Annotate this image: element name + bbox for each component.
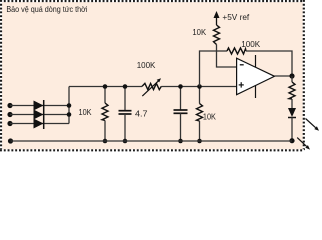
node: R1 bottom junction <box>103 139 108 144</box>
selection dashed border bottom <box>0 149 304 151</box>
diode D2 <box>34 110 44 120</box>
svg-text:10K: 10K <box>203 112 217 121</box>
LED emission arrow 2 <box>297 138 306 147</box>
node: C1 top junction <box>123 84 128 89</box>
node: C2 bottom junction <box>178 139 183 144</box>
svg-text:100K: 100K <box>241 40 261 49</box>
node: LED bottom junction <box>289 138 294 143</box>
wire: phase 3 line <box>10 123 69 125</box>
LED D4 <box>288 108 296 117</box>
wire: riser from diodes to signal wire <box>68 87 70 124</box>
svg-text:4.7: 4.7 <box>135 110 148 119</box>
node: C2 top junction <box>178 84 183 89</box>
node: input terminal 3 <box>7 121 12 126</box>
wire: phase 2 line <box>10 114 69 116</box>
capacitor C2 <box>180 87 182 111</box>
capacitor C1 4.7 <box>124 87 126 111</box>
wire: signal wire to op-amp + input <box>69 86 142 88</box>
op-amp U1 <box>237 58 275 94</box>
resistor R4 100K feedback <box>227 48 246 54</box>
op-amp top power stub <box>255 55 257 67</box>
selection area background <box>0 0 304 151</box>
wire: op-amp output <box>275 75 293 77</box>
svg-text:100K: 100K <box>137 61 156 70</box>
resistor R2 10K <box>199 87 201 104</box>
op-amp minus label <box>240 64 244 66</box>
wire: riser to reference node <box>200 51 217 87</box>
op-amp plus label <box>239 84 244 86</box>
diode D3 <box>34 119 44 129</box>
node: junction riser/phase2 <box>67 112 72 117</box>
resistor R5 <box>291 76 293 82</box>
node: R2 bottom junction <box>197 139 202 144</box>
svg-text:10K: 10K <box>192 28 206 37</box>
op-amp bottom power stub <box>255 85 257 98</box>
power +5V ref arrow <box>216 13 218 25</box>
selection dashed border right <box>303 0 305 151</box>
node: input terminal 1 <box>7 103 12 108</box>
wire: feedback resistor to output column <box>246 51 292 76</box>
node: output junction <box>289 73 294 78</box>
cathode bar shared by D1 D2 D3 <box>43 100 45 129</box>
wire: bottom common rail <box>11 140 293 142</box>
selection dashed border top <box>0 0 304 2</box>
wire: drop to inverting input <box>217 51 237 67</box>
selection dashed border left <box>0 0 2 151</box>
node: R1 top junction <box>103 84 108 89</box>
node: R2 top junction <box>197 84 202 89</box>
node: input terminal 2 <box>7 112 12 117</box>
svg-text:+5V ref: +5V ref <box>222 13 250 22</box>
resistor R1 10K <box>104 87 106 104</box>
node: C1 bottom junction <box>123 139 128 144</box>
resistor R3 10K <box>214 25 220 45</box>
diode D1 <box>34 101 44 111</box>
svg-text:10K: 10K <box>79 108 93 117</box>
LED emission arrow 1 <box>306 119 316 128</box>
potentiometer RV1 100K <box>142 83 161 89</box>
page background <box>0 0 322 153</box>
wire: phase 1 line <box>10 105 69 107</box>
node: junction riser/phase1 <box>67 103 72 108</box>
svg-text:Bảo vệ quá dòng tức thời: Bảo vệ quá dòng tức thời <box>6 5 87 14</box>
wire: reference node to feedback resistor <box>217 50 228 52</box>
node: common terminal <box>8 138 13 143</box>
